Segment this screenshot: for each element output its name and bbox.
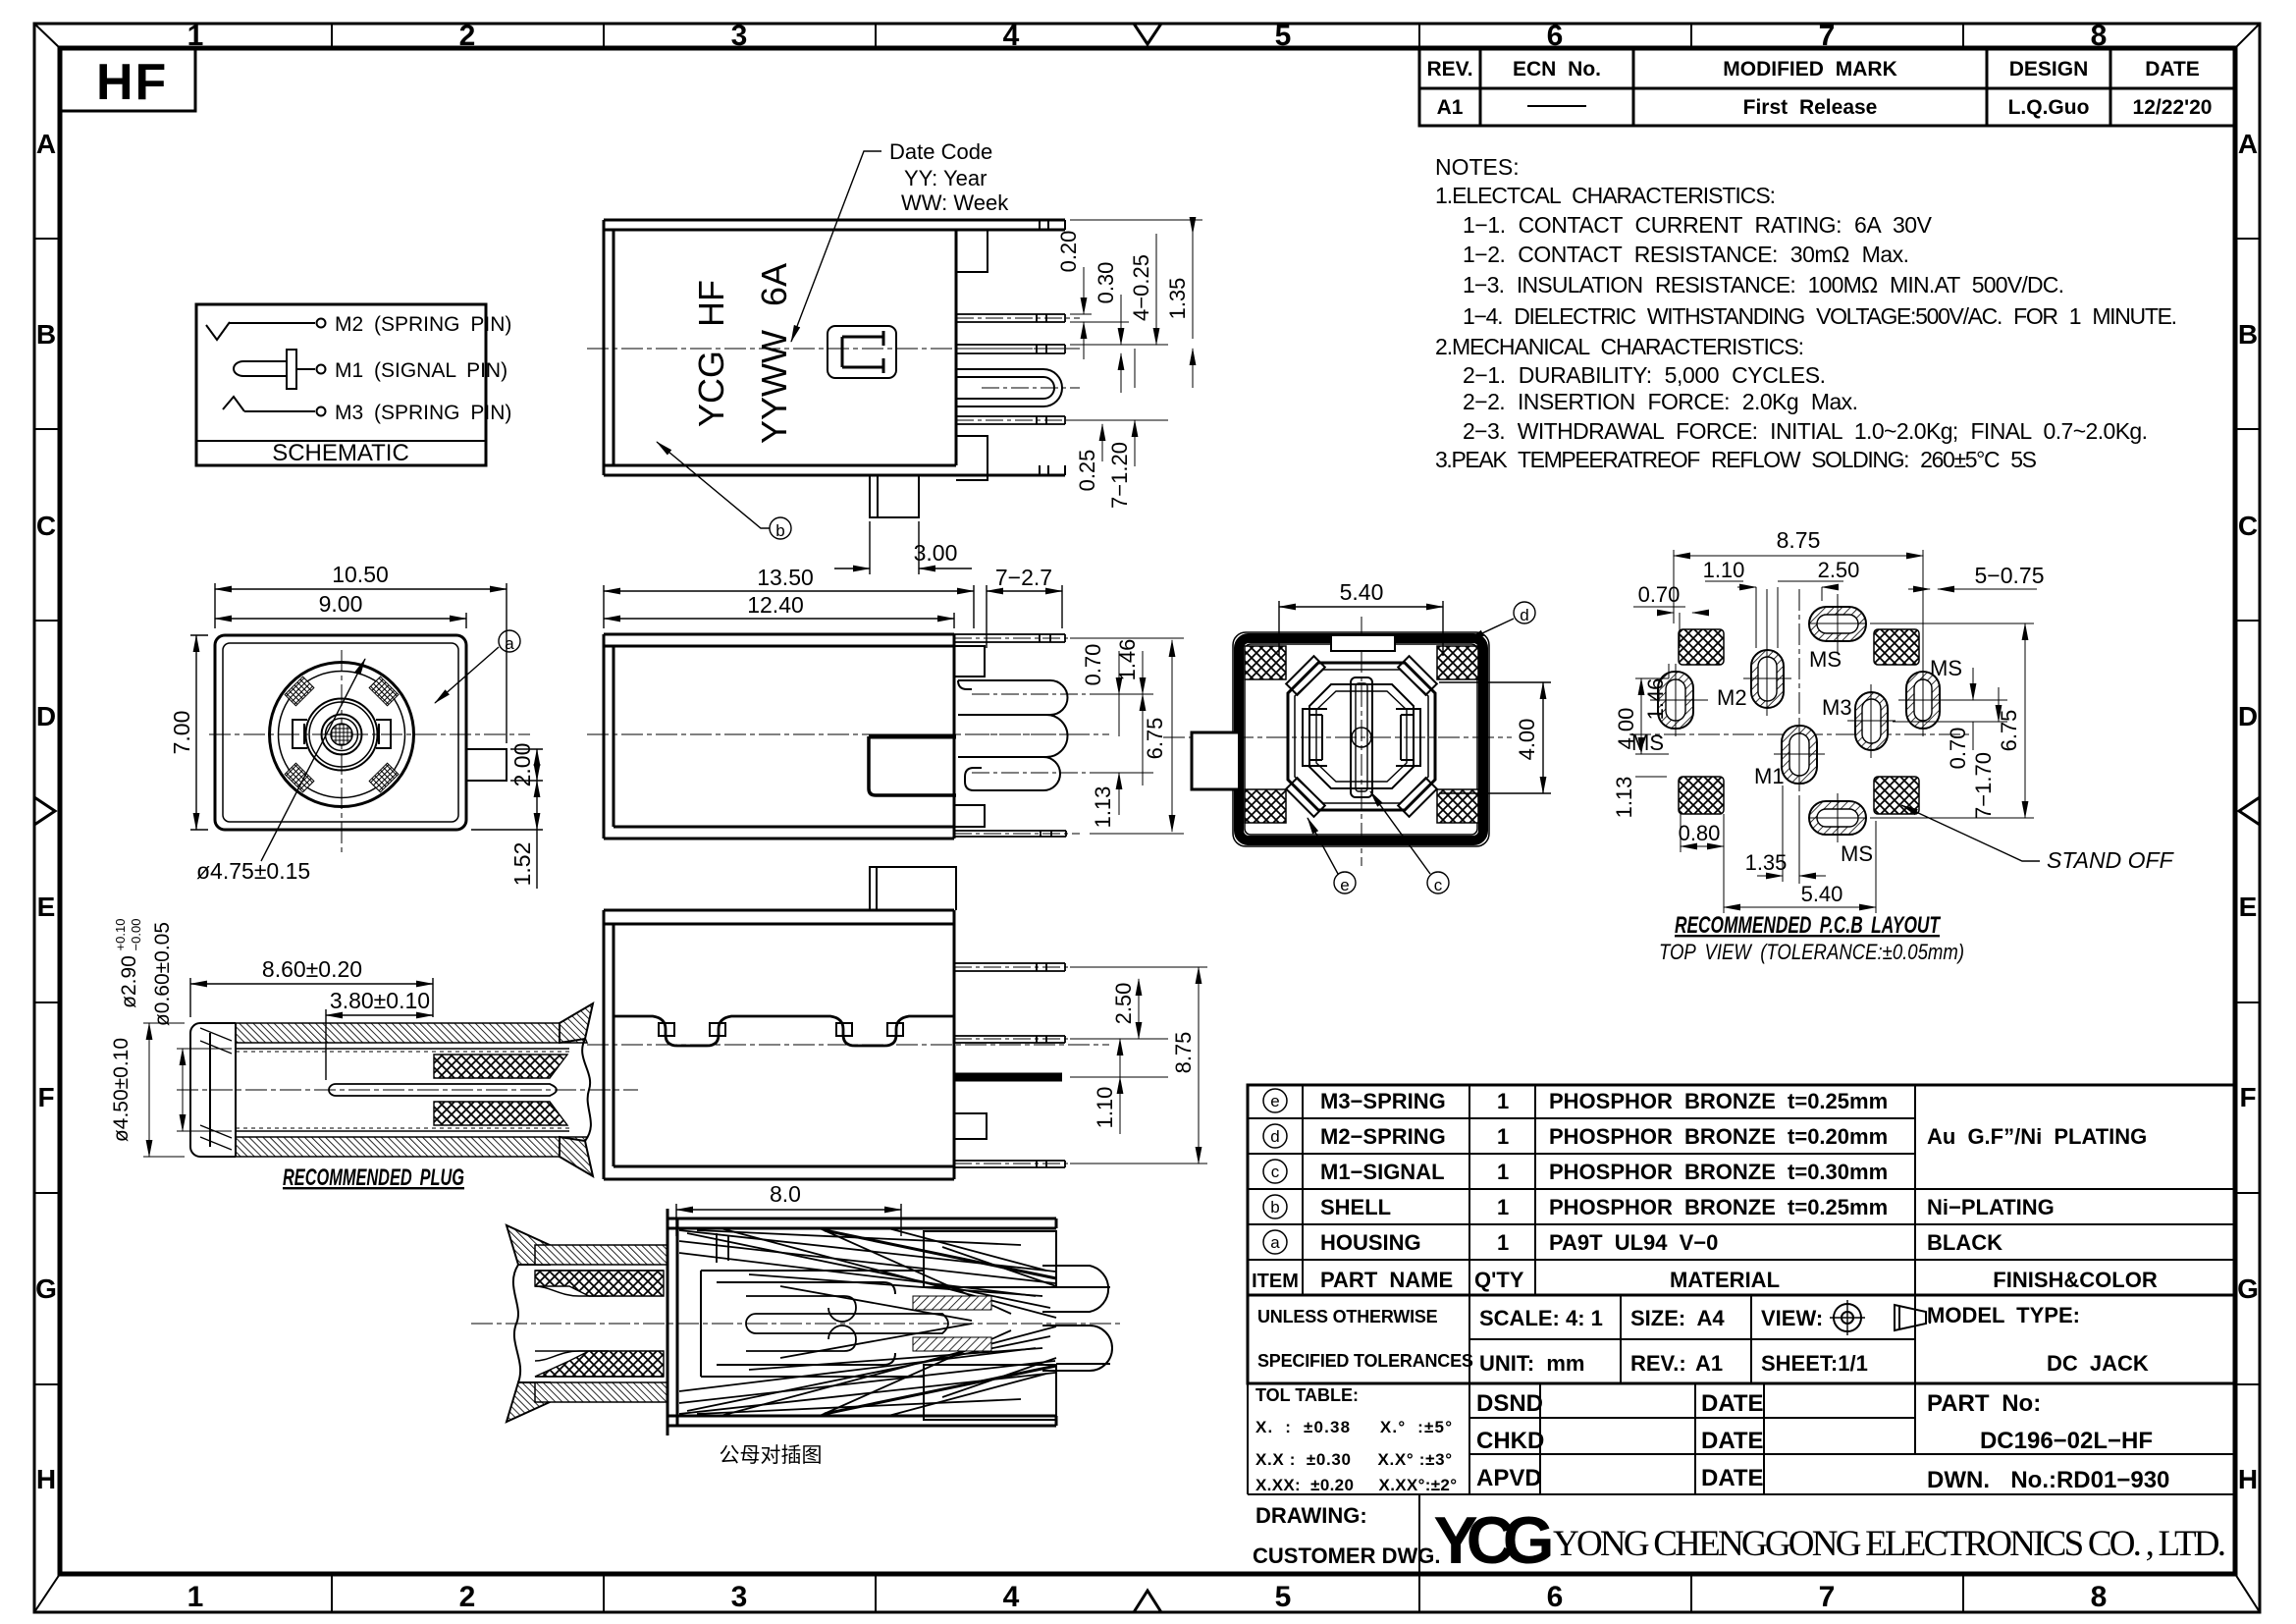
zone letters right: [2237, 129, 2259, 1494]
view3 solid pin (black): [954, 1073, 1062, 1082]
pcb pad labels: [1631, 647, 1962, 866]
view2 finger M3 (center): [958, 715, 1090, 757]
plug break edge right: [560, 1003, 593, 1176]
svg-text:FINISH&COLOR: FINISH&COLOR: [1993, 1268, 2158, 1292]
svg-text:DATE: DATE: [2145, 58, 2200, 81]
dim 3.80 (plug): [326, 1009, 433, 1080]
svg-text:M3: M3: [1822, 695, 1852, 720]
svg-text:1.10: 1.10: [1703, 558, 1745, 582]
dim 7-2.7 (view2): [987, 585, 1062, 648]
drawing row: [1418, 1494, 1420, 1574]
svg-text:1: 1: [187, 1581, 204, 1613]
view2 housing window cut: [869, 736, 956, 795]
ring dia 4.75: [306, 699, 378, 771]
svg-text:7−2.7: 7−2.7: [995, 565, 1052, 590]
svg-text:M2: M2: [1717, 685, 1747, 710]
view1 pin strip C: [956, 416, 1080, 424]
view2 centerline: [587, 733, 1109, 735]
bom rows text: [1320, 1089, 2147, 1255]
svg-text:2−1. DURABILITY: 5,000 CYCL: 2−1. DURABILITY: 5,000 CYCLES.: [1463, 362, 1826, 388]
rear corner hatch BR: [1437, 789, 1478, 823]
bom item circles: [1263, 1089, 1287, 1254]
svg-text:UNIT: mm: UNIT: mm: [1479, 1351, 1584, 1376]
svg-text:4−0.25: 4−0.25: [1129, 254, 1153, 321]
svg-text:0.80: 0.80: [1679, 821, 1721, 845]
view1 flange end caps and ticks: [956, 220, 1065, 480]
HF title box: [60, 48, 195, 111]
spring pads on shell circle: [285, 677, 399, 792]
svg-text:2.50: 2.50: [1111, 983, 1136, 1025]
svg-text:6.75: 6.75: [1143, 718, 1167, 760]
label (c) leader: [1370, 791, 1449, 893]
svg-text:REV.: REV.: [1426, 58, 1472, 81]
svg-text:8.75: 8.75: [1777, 527, 1821, 553]
rear left tab: [1192, 732, 1239, 789]
view2 finger M1: [958, 757, 1090, 790]
dim 5.40 (rear): [1279, 601, 1443, 656]
pcb dim 1.35: [1757, 785, 1826, 882]
svg-text:1: 1: [1497, 1089, 1509, 1113]
pcb dim 5.40 bottom: [1724, 821, 1876, 913]
svg-text:9.00: 9.00: [319, 591, 363, 617]
svg-text:REV.: A1: REV.: A1: [1630, 1351, 1723, 1376]
svg-text:B: B: [36, 319, 56, 350]
dim 2.00 (front tab): [510, 749, 543, 781]
svg-text:e: e: [1270, 1092, 1279, 1110]
svg-text:YCG: YCG: [1433, 1503, 1550, 1578]
svg-text:ø0.60±0.05: ø0.60±0.05: [151, 922, 174, 1026]
svg-text:TOL TABLE:: TOL TABLE:: [1255, 1385, 1359, 1405]
mating plug sleeve top: [535, 1245, 667, 1265]
svg-text:X. : ±0.38 X.° :±5°: X. : ±0.38 X.° :±5°: [1255, 1418, 1452, 1436]
svg-text:5−0.75: 5−0.75: [1975, 563, 2045, 588]
svg-text:A: A: [2238, 129, 2258, 159]
corner diagonal bottom-left: [34, 1574, 60, 1612]
svg-text:4.00: 4.00: [1614, 708, 1638, 750]
svg-text:6.75: 6.75: [1997, 710, 2021, 752]
pcb dim 5-0.75: [1908, 588, 2037, 590]
plug centerline: [177, 1089, 638, 1091]
svg-text:ø4.50±0.10: ø4.50±0.10: [110, 1038, 133, 1142]
svg-text:Ni−PLATING: Ni−PLATING: [1927, 1195, 2055, 1219]
view1 bottom tab: [870, 475, 919, 517]
svg-text:1: 1: [187, 20, 204, 52]
pcb standoff TL: [1679, 629, 1724, 665]
dim 1.52 (front): [471, 781, 543, 889]
svg-text:−0.00: −0.00: [129, 919, 143, 951]
view3 body: [604, 910, 954, 1179]
svg-text:PHOSPHOR BRONZE t=0.30mm: PHOSPHOR BRONZE t=0.30mm: [1549, 1160, 1888, 1184]
zone numbers bottom: [187, 1581, 2108, 1613]
svg-text:8.0: 8.0: [770, 1181, 801, 1207]
pad M1: [1774, 718, 1825, 791]
svg-text:RECOMMENDED PLUG: RECOMMENDED PLUG: [283, 1164, 464, 1191]
svg-text:WW: Week: WW: Week: [901, 190, 1009, 215]
svg-text:YYWW 6A: YYWW 6A: [754, 263, 794, 444]
svg-text:SCALE: 4: 1: SCALE: 4: 1: [1479, 1306, 1603, 1330]
svg-text:12.40: 12.40: [747, 592, 804, 618]
rear diagonal clip NW: [1286, 656, 1437, 817]
svg-text:1−3. INSULATION RESISTANCE:: 1−3. INSULATION RESISTANCE: 100MΩ MIN.AT…: [1463, 272, 2064, 298]
mating plug insulator upper: [535, 1271, 664, 1296]
plug left dia labels: [110, 919, 174, 1143]
pad MS right: [1898, 664, 1948, 736]
revision dash (ECN No. row): [1527, 105, 1586, 107]
schematic pin M3 symbol: [223, 397, 326, 416]
plug center contact: [329, 1084, 557, 1096]
svg-text:0.70: 0.70: [1638, 582, 1681, 607]
view1 pin strip A: [956, 314, 1080, 322]
svg-text:M3 (SPRING PIN): M3 (SPRING PIN): [335, 402, 511, 424]
svg-text:YCG HF: YCG HF: [691, 280, 731, 427]
svg-text:DSND: DSND: [1476, 1390, 1543, 1417]
svg-text:MODEL TYPE:: MODEL TYPE:: [1927, 1303, 2080, 1327]
svg-text:PART NAME: PART NAME: [1320, 1268, 1453, 1292]
plug inner bore lines: [236, 1049, 569, 1131]
label (d) leader: [1468, 602, 1535, 640]
notes text block: [1435, 154, 2177, 472]
centering mark top: [1134, 24, 1161, 44]
svg-text:6: 6: [1547, 1581, 1564, 1613]
svg-text:1.35: 1.35: [1165, 278, 1190, 320]
svg-text:L.Q.Guo: L.Q.Guo: [2008, 96, 2090, 119]
side key brackets: [293, 720, 391, 748]
mating jack outline: [667, 1209, 1056, 1435]
view2 right dims 0.70 1.46 6.75 1.13: [1070, 638, 1184, 834]
svg-text:b: b: [775, 521, 784, 540]
svg-text:D: D: [2238, 701, 2258, 731]
svg-text:F: F: [2239, 1082, 2256, 1112]
svg-text:2.00: 2.00: [509, 743, 535, 787]
svg-text:a: a: [505, 634, 514, 653]
svg-text:M1−SIGNAL: M1−SIGNAL: [1320, 1160, 1445, 1184]
mating plug insulator lower: [535, 1351, 664, 1377]
svg-text:M2−SPRING: M2−SPRING: [1320, 1124, 1446, 1149]
svg-text:A: A: [36, 129, 56, 159]
pcb standoff BR: [1874, 777, 1919, 814]
svg-text:F: F: [37, 1082, 54, 1112]
shell tab right (front view): [466, 749, 507, 781]
svg-text:RECOMMENDED P.C.B LAYOUT: RECOMMENDED P.C.B LAYOUT: [1675, 912, 1942, 939]
dim 4.00 (rear): [1439, 682, 1551, 793]
bom header row: [1252, 1268, 2158, 1292]
pcb dim 4.00 left: [1635, 678, 1669, 754]
svg-text:NOTES:: NOTES:: [1435, 154, 1520, 180]
tolerance table block: [1248, 1383, 2235, 1494]
svg-text:1: 1: [1497, 1195, 1509, 1219]
svg-text:1−4. DIELECTRIC WITHSTANDING: 1−4. DIELECTRIC WITHSTANDING VOLTAGE:500…: [1463, 303, 2177, 329]
view2 body: [604, 634, 954, 839]
svg-text:M1 (SIGNAL PIN): M1 (SIGNAL PIN): [335, 359, 507, 382]
zone ticks top: [332, 24, 1963, 48]
svg-text:5.40: 5.40: [1801, 882, 1843, 906]
svg-text:5.40: 5.40: [1340, 579, 1384, 605]
plug tip cap: [190, 1023, 236, 1157]
plug sleeve top band: [236, 1023, 587, 1043]
bom row lines: [1248, 1118, 2235, 1260]
corner diagonal top-right: [2235, 24, 2260, 48]
rear housing outline: [1233, 632, 1489, 846]
pcb centerlines: [1629, 733, 1973, 735]
svg-text:4: 4: [1003, 20, 1020, 52]
svg-text:7: 7: [1819, 1581, 1836, 1613]
view3 top flange pins: [954, 963, 1080, 971]
view3 spring latch cuts: [614, 1016, 954, 1046]
svg-text:8: 8: [2091, 20, 2108, 52]
svg-text:2: 2: [459, 20, 476, 52]
dim 3.00 (view1 tab): [834, 521, 972, 574]
svg-text:DATE: DATE: [1701, 1390, 1764, 1417]
svg-text:G: G: [35, 1273, 57, 1304]
svg-text:10.50: 10.50: [332, 562, 389, 587]
svg-text:4.00: 4.00: [1515, 719, 1539, 761]
svg-text:STAND OFF: STAND OFF: [2047, 847, 2175, 873]
rear octagon outer: [1288, 663, 1435, 810]
svg-text:PHOSPHOR BRONZE t=0.25mm: PHOSPHOR BRONZE t=0.25mm: [1549, 1089, 1888, 1113]
view1 U spring: [956, 369, 1080, 406]
svg-text:d: d: [1270, 1127, 1279, 1146]
rear center pin: [1351, 677, 1372, 797]
svg-text:c: c: [1434, 876, 1443, 894]
svg-text:0.70: 0.70: [1081, 644, 1105, 686]
svg-text:1.ELECTCAL CHARACTERISTICS:: 1.ELECTCAL CHARACTERISTICS:: [1435, 183, 1776, 208]
view1 right-side dims 0.20 0.30 4-0.25 1.35: [1070, 220, 1202, 466]
svg-text:HOUSING: HOUSING: [1320, 1230, 1421, 1255]
svg-text:CUSTOMER DWG.: CUSTOMER DWG.: [1253, 1543, 1440, 1568]
dim 10.50 (front): [215, 583, 507, 743]
inner pin rings: [322, 715, 362, 755]
view3 mid pin: [954, 1036, 1080, 1043]
svg-text:TOP VIEW (TOLERANCE:±0.05mm): TOP VIEW (TOLERANCE:±0.05mm): [1659, 940, 1964, 964]
mating centerline: [471, 1323, 1124, 1325]
svg-text:4: 4: [1003, 1581, 1020, 1613]
svg-text:H: H: [2238, 1464, 2258, 1494]
svg-text:BLACK: BLACK: [1927, 1230, 2002, 1255]
svg-text:1.46: 1.46: [1115, 639, 1140, 681]
svg-text:HF: HF: [96, 54, 168, 111]
svg-text:d: d: [1520, 606, 1528, 624]
pcb dim 7-1.70 right: [1893, 687, 2007, 722]
pcb dim 1.13 left: [1635, 776, 1667, 778]
shell circle outer: [270, 663, 414, 807]
label (b) leader: [657, 442, 791, 539]
view2 top flange: [954, 634, 1080, 677]
svg-text:ø4.75±0.15: ø4.75±0.15: [196, 858, 310, 884]
svg-text:1: 1: [1497, 1160, 1509, 1184]
plug insulator hatch lower: [434, 1102, 567, 1125]
svg-text:E: E: [2239, 892, 2258, 922]
view symbols (third angle): [1830, 1300, 1930, 1335]
dim 9.00 (front): [215, 613, 466, 628]
rear side contacts: [1303, 709, 1420, 766]
svg-text:3.80±0.10: 3.80±0.10: [330, 988, 430, 1013]
svg-text:e: e: [1340, 876, 1349, 894]
svg-text:M1: M1: [1754, 764, 1785, 788]
svg-text:DATE: DATE: [1701, 1465, 1764, 1491]
svg-text:Date Code: Date Code: [889, 139, 992, 164]
plug dia dim lines: [143, 1023, 232, 1157]
svg-text:Q'TY: Q'TY: [1474, 1268, 1524, 1292]
svg-text:+0.10: +0.10: [113, 919, 128, 951]
pcb standoff BL: [1679, 777, 1724, 814]
svg-text:DC196−02L−HF: DC196−02L−HF: [1980, 1428, 2153, 1454]
svg-text:YY: Year: YY: Year: [904, 166, 987, 190]
pcb dim 1.46 left: [1667, 664, 1708, 700]
svg-text:1.35: 1.35: [1745, 850, 1788, 875]
svg-text:8: 8: [2091, 1581, 2108, 1613]
view1 pin strip B: [956, 345, 1080, 353]
svg-text:MS: MS: [1841, 841, 1873, 866]
svg-text:APVD: APVD: [1476, 1465, 1542, 1491]
schematic pin M2 symbol: [206, 319, 326, 341]
svg-text:c: c: [1271, 1163, 1280, 1181]
svg-text:1.10: 1.10: [1093, 1087, 1117, 1129]
rear view centerlines: [1163, 736, 1512, 738]
corner diagonal bottom-right: [2235, 1574, 2260, 1612]
svg-text:MODIFIED MARK: MODIFIED MARK: [1723, 58, 1897, 81]
svg-text:2: 2: [459, 1581, 476, 1613]
zone ticks bottom: [332, 1574, 1963, 1612]
pcb standoff TR: [1874, 629, 1919, 665]
view2 finger M2: [958, 680, 1090, 715]
zone numbers top: [187, 20, 2108, 52]
plug insulator hatch upper: [434, 1055, 567, 1078]
view3 bottom flange pins: [954, 1113, 1080, 1167]
pcb dim 0.80: [1681, 814, 1724, 852]
svg-text:3: 3: [731, 1581, 748, 1613]
svg-text:1.13: 1.13: [1612, 777, 1636, 819]
mating jack hatch patches: [913, 1296, 991, 1310]
bom column lines: [1303, 1085, 1915, 1295]
svg-text:1−2. CONTACT RESISTANCE: 30: 1−2. CONTACT RESISTANCE: 30mΩ Max.: [1463, 242, 1909, 267]
date-code clip detail: [828, 326, 896, 378]
mating inner pins: [746, 1296, 948, 1351]
svg-text:b: b: [1270, 1198, 1279, 1217]
pcb dim 0.70 top-left: [1633, 607, 1708, 648]
zone ticks left: [34, 239, 60, 1384]
svg-text:MS: MS: [1930, 656, 1962, 680]
svg-text:YONG CHENGGONG ELECTRONICS: YONG CHENGGONG ELECTRONICS CO. , LTD.: [1553, 1524, 2226, 1564]
svg-text:7−1.20: 7−1.20: [1107, 442, 1132, 509]
svg-text:3.00: 3.00: [914, 540, 958, 566]
schematic legend box: [196, 304, 486, 465]
svg-text:7: 7: [1819, 20, 1836, 52]
svg-text:2−2. INSERTION FORCE: 2.0Kg: 2−2. INSERTION FORCE: 2.0Kg Max.: [1463, 389, 1858, 414]
svg-text:1: 1: [1497, 1230, 1509, 1255]
svg-text:PART No:: PART No:: [1927, 1390, 2041, 1417]
svg-text:1.46: 1.46: [1643, 678, 1668, 721]
svg-text:0.25: 0.25: [1075, 450, 1099, 492]
date code note + leader: [889, 139, 1009, 215]
view2 bottom flange: [954, 805, 1080, 837]
svg-text:2−3. WITHDRAWAL FORCE: INITI: 2−3. WITHDRAWAL FORCE: INITIAL 1.0~2.0Kg…: [1463, 418, 2148, 444]
bom outer: [1248, 1085, 2235, 1295]
svg-text:A1: A1: [1437, 96, 1464, 119]
housing outline front: [215, 635, 466, 830]
svg-text:DWN. No.:RD01−930: DWN. No.:RD01−930: [1927, 1467, 2169, 1493]
svg-text:E: E: [37, 892, 56, 922]
svg-text:0.20: 0.20: [1056, 231, 1081, 273]
svg-text:1.13: 1.13: [1091, 786, 1115, 829]
rear top notch: [1331, 635, 1395, 651]
dim 13.50 (view2): [604, 585, 974, 628]
svg-text:1−1. CONTACT CURRENT RATING: 1−1. CONTACT CURRENT RATING: 6A 30V: [1463, 212, 1933, 238]
dim 12.40 (view2): [604, 613, 954, 628]
svg-text:公母对插图: 公母对插图: [720, 1444, 823, 1467]
svg-text:7−1.70: 7−1.70: [1971, 752, 1996, 819]
svg-text:C: C: [2238, 511, 2258, 541]
schematic pin M1 symbol: [234, 350, 326, 389]
svg-text:G: G: [2237, 1273, 2259, 1304]
centering mark left: [34, 797, 55, 825]
centering mark bottom: [1134, 1591, 1161, 1612]
svg-text:PA9T UL94 V−0: PA9T UL94 V−0: [1549, 1230, 1718, 1255]
svg-text:SHEET:1/1: SHEET:1/1: [1761, 1351, 1868, 1376]
svg-text:SIZE: A4: SIZE: A4: [1630, 1306, 1725, 1330]
view1 centerline: [587, 348, 1080, 350]
shell body view1: [604, 220, 1065, 475]
svg-text:7.00: 7.00: [169, 711, 194, 755]
svg-text:DESIGN: DESIGN: [2009, 58, 2089, 81]
dim 7.00 (front): [190, 635, 208, 830]
mating jack spring fingers (diagonals): [679, 1228, 1056, 1416]
svg-text:0.30: 0.30: [1094, 262, 1118, 304]
svg-text:UNLESS OTHERWISE: UNLESS OTHERWISE: [1257, 1307, 1438, 1326]
svg-text:1: 1: [1497, 1124, 1509, 1149]
svg-text:MS: MS: [1809, 647, 1842, 672]
label (e) leader: [1308, 818, 1356, 893]
view3 right dims 2.50 8.75 1.10: [1070, 967, 1207, 1164]
mating plug sleeve bottom: [535, 1382, 667, 1402]
center pin hatched: [331, 724, 352, 745]
svg-text:SCHEMATIC: SCHEMATIC: [272, 440, 409, 466]
plug sleeve bottom band: [236, 1137, 587, 1157]
svg-text:B: B: [2238, 319, 2258, 350]
svg-text:3.PEAK TEMPEERATREOF REFLOW: 3.PEAK TEMPEERATREOF REFLOW SOLDING: 260…: [1435, 447, 2037, 472]
svg-text:5: 5: [1275, 20, 1292, 52]
svg-text:13.50: 13.50: [757, 565, 814, 590]
svg-text:PHOSPHOR BRONZE t=0.20mm: PHOSPHOR BRONZE t=0.20mm: [1549, 1124, 1888, 1149]
svg-text:2.50: 2.50: [1818, 558, 1860, 582]
zone ticks right: [2235, 239, 2260, 1384]
pcb dim 0.70 right: [1944, 668, 2007, 750]
pad MS left: [1650, 664, 1701, 736]
pad MS top: [1809, 594, 1866, 654]
pad M3: [1847, 684, 1896, 758]
svg-text:VIEW:: VIEW:: [1761, 1306, 1823, 1330]
svg-text:12/22'20: 12/22'20: [2133, 96, 2213, 119]
rear corner hatch BL: [1245, 789, 1286, 823]
corner diagonal top-left: [34, 24, 60, 48]
svg-text:Au G.F”/Ni PLATING: Au G.F”/Ni PLATING: [1927, 1124, 2147, 1149]
pcb dim 1.10: [1705, 581, 1778, 648]
svg-text:C: C: [36, 511, 56, 541]
svg-text:PHOSPHOR BRONZE t=0.25mm: PHOSPHOR BRONZE t=0.25mm: [1549, 1195, 1888, 1219]
svg-text:5: 5: [1275, 1581, 1292, 1613]
svg-text:8.75: 8.75: [1171, 1032, 1196, 1074]
svg-text:a: a: [1270, 1233, 1280, 1252]
pcb dim 2.50: [1778, 581, 1843, 601]
svg-text:X.X : ±0.30 X.X° :±3°: X.X : ±0.30 X.X° :±3°: [1255, 1450, 1452, 1469]
svg-text:X.XX: ±0.20 X.XX°:±2°: X.XX: ±0.20 X.XX°:±2°: [1255, 1476, 1457, 1494]
mating jack inner body: [701, 1231, 1056, 1420]
svg-text:SHELL: SHELL: [1320, 1195, 1391, 1219]
svg-text:M3−SPRING: M3−SPRING: [1320, 1089, 1446, 1113]
svg-text:0.70: 0.70: [1946, 728, 1970, 770]
dim 8.60 (plug): [190, 978, 433, 1017]
svg-text:ø2.90: ø2.90: [118, 955, 140, 1008]
svg-text:DRAWING:: DRAWING:: [1255, 1503, 1367, 1528]
